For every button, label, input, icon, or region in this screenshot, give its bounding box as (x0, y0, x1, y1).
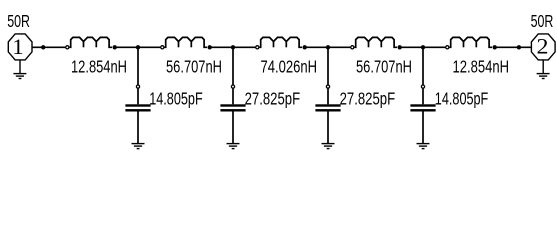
inductor L4 (56.707nH) coil (351, 37, 402, 49)
svg-text:14.805pF: 14.805pF (435, 89, 489, 109)
capacitor C4 (14.805pF) branch (410, 47, 435, 143)
junction node 5 (C4 tap) (421, 45, 425, 49)
wire: port 1 pin to L1 (32, 46, 65, 48)
junction: port 1 pin node (41, 45, 45, 49)
wire: L2 to node 3 (210, 46, 256, 48)
junction node 4 (C3 tap) (326, 45, 330, 49)
junction node 3 (C2 tap) (231, 45, 235, 49)
svg-text:56.707nH: 56.707nH (166, 56, 222, 76)
svg-text:12.854nH: 12.854nH (453, 56, 510, 76)
svg-text:56.707nH: 56.707nH (356, 56, 412, 76)
svg-text:50R: 50R (7, 11, 30, 31)
inductor L3 (74.026nH) coil (256, 37, 307, 49)
inductor L2 (56.707nH) coil (161, 37, 212, 49)
junction node 2 (C1 tap) (136, 45, 140, 49)
inductor L1 (12.854nH) coil (66, 37, 117, 49)
wire: L5 to port 2 (495, 46, 532, 48)
svg-text:27.825pF: 27.825pF (340, 89, 396, 109)
capacitor C1 (14.805pF) branch (125, 47, 150, 143)
ground (port 1) (13, 60, 26, 79)
wire: L4 to node 5 (400, 46, 446, 48)
ground (C1) (132, 144, 145, 149)
svg-text:14.805pF: 14.805pF (149, 89, 203, 109)
ground (C3) (322, 144, 335, 149)
svg-text:74.026nH: 74.026nH (261, 56, 318, 76)
wire: L3 to node 4 (305, 46, 351, 48)
ground (port 2) (537, 60, 550, 79)
wire: L1 to node 2 (115, 46, 161, 48)
svg-text:27.825pF: 27.825pF (245, 89, 301, 109)
svg-text:1: 1 (12, 34, 23, 59)
junction: port 2 pin node (517, 45, 521, 49)
svg-text:2: 2 (537, 34, 549, 59)
ground (C2) (227, 144, 240, 149)
capacitor C3 (27.825pF) branch (315, 47, 340, 143)
capacitor C2 (27.825pF) branch (220, 47, 245, 143)
svg-text:50R: 50R (531, 11, 554, 31)
svg-text:12.854nH: 12.854nH (71, 56, 127, 76)
port 1 symbol (octagon) (8, 34, 32, 60)
inductor L5 (12.854nH) coil (446, 37, 497, 49)
ground (C4) (417, 144, 430, 149)
port 2 symbol (octagon) (531, 34, 555, 60)
